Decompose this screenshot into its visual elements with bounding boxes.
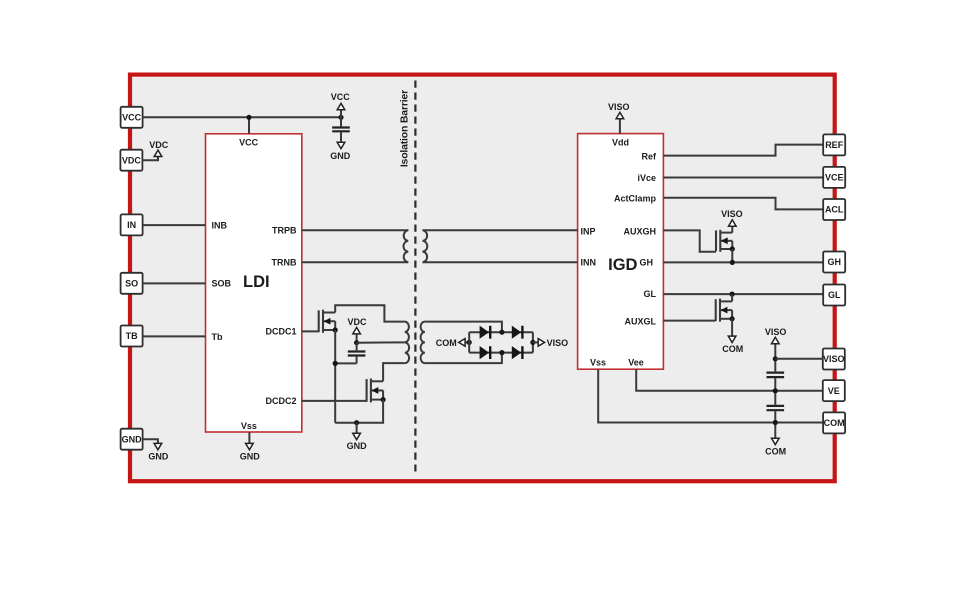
diode D1 [480,326,491,339]
diode D4 [512,346,523,359]
wire ground rail [335,400,383,423]
junction C2 bottom [333,361,338,366]
transistor Q4 AUXGL [716,299,732,322]
junction bridge top mid [499,330,504,335]
wire Q4 drain to GL [731,294,733,301]
svg-text:VISO: VISO [547,338,569,348]
wire bridge bottom [469,352,533,354]
ground flag at GND terminal [143,439,169,461]
svg-text:ActClamp: ActClamp [614,194,657,204]
svg-text:Vdd: Vdd [612,138,629,148]
svg-text:IGD: IGD [608,256,637,274]
wire VISO box [775,358,822,360]
terminal SO [121,273,143,294]
wire DCDC2 gate [302,400,367,402]
power flag VDC [143,140,169,161]
junction bridge right [530,340,535,345]
board outline [130,75,835,482]
svg-text:TB: TB [126,331,138,341]
svg-text:GL: GL [644,289,657,299]
svg-text:DCDC2: DCDC2 [265,396,296,406]
svg-text:GND: GND [122,434,143,444]
svg-text:LDI: LDI [243,273,270,291]
junction Q3 source [730,246,735,251]
svg-text:ACL: ACL [825,205,844,215]
junction VCC-LDI [246,115,251,120]
svg-text:VCC: VCC [122,113,142,123]
junction Q2 source [381,397,386,402]
svg-text:GH: GH [827,257,841,267]
wire bridge top [469,331,533,333]
power flag VDC at converter [347,317,367,343]
ground GND under C1 [330,142,351,161]
wire ActClamp [663,198,823,210]
svg-text:TRPB: TRPB [272,226,297,236]
terminal IN [121,214,143,235]
wire VDC center-tap [357,341,405,343]
svg-text:VDC: VDC [347,317,367,327]
svg-text:Vss: Vss [241,421,257,431]
ground flag LDI Vss [240,432,261,461]
wire T2 secondary bottom feed [425,353,502,364]
terminal VCE [823,167,845,188]
wire iVce [663,177,823,179]
op-block IGD [578,134,664,370]
svg-text:COM: COM [436,338,457,348]
junction bridge bottom mid [499,350,504,355]
svg-text:INB: INB [212,221,228,231]
wire SO-SOB [143,282,206,284]
wire TRNB [302,261,409,263]
wire AUXGH gate [663,230,716,251]
ground flag COM bottom [765,438,786,456]
svg-text:COM: COM [765,446,786,456]
terminal GL [823,285,845,306]
terminal VCC [121,107,143,128]
svg-text:REF: REF [825,140,844,150]
svg-text:GND: GND [330,151,351,161]
capacitor C1 [332,117,350,142]
power flag VCC [331,92,351,118]
svg-text:iVce: iVce [637,173,656,183]
junction COM tap [773,420,778,425]
wire Q3 source to GH [731,249,733,262]
transistor Q3 AUXGH [716,230,732,252]
wire INN [423,261,578,263]
isolation barrier [398,81,415,472]
svg-text:GH: GH [640,258,654,268]
svg-text:TRNB: TRNB [272,258,297,268]
svg-text:VISO: VISO [765,327,787,337]
svg-text:VCC: VCC [239,138,259,148]
capacitor C4 [767,406,785,439]
diode D2 [512,326,523,339]
svg-text:Ref: Ref [641,151,657,161]
svg-text:GND: GND [240,451,261,461]
svg-text:VDC: VDC [122,155,142,165]
svg-text:IN: IN [127,220,136,230]
svg-text:DCDC1: DCDC1 [265,327,296,337]
junction Q4 source [730,316,735,321]
wire Vee to VE rail [636,369,823,391]
diode D3 [480,346,491,359]
wire bridge left rail [468,332,470,352]
svg-text:COM: COM [824,418,845,428]
transistor Q1 [319,310,336,333]
svg-text:GND: GND [148,451,169,461]
junction GH [730,260,735,265]
wire GL [663,293,823,295]
svg-text:SO: SO [125,279,138,289]
svg-text:GND: GND [347,441,368,451]
svg-text:VISO: VISO [721,209,743,219]
terminal ACL [823,199,845,220]
wire C2 bottom tie [335,362,356,364]
wire T2 secondary top feed [425,322,502,333]
terminal GND [121,429,143,450]
svg-text:GL: GL [828,290,841,300]
wire TRPB [302,229,409,231]
net flag COM at bridge [436,338,469,348]
junction Q1 source [333,327,338,332]
svg-text:VISO: VISO [608,102,630,112]
svg-text:AUXGL: AUXGL [625,317,657,327]
terminal VE [823,380,845,401]
wire Vss to COM rail [598,369,823,422]
terminal VISO [823,349,845,370]
wire Q1 drain rail [335,305,405,321]
svg-text:COM: COM [722,344,743,354]
terminal VDC [120,150,142,171]
svg-text:Tb: Tb [212,332,223,342]
junction VISO box tap [773,356,778,361]
svg-text:Vee: Vee [628,357,644,367]
svg-text:VCC: VCC [331,92,351,102]
wire GH [663,261,823,263]
svg-text:VCE: VCE [825,173,844,183]
transformer T1 [404,230,428,262]
svg-text:AUXGH: AUXGH [623,226,656,236]
op-block LDI [206,134,302,432]
wire AUXGL gate [663,320,715,322]
ground flag converter [347,423,368,451]
junction VCC-C1 [338,115,343,120]
junction ground tap [354,420,359,425]
svg-text:INP: INP [581,226,596,236]
wire IN-INB [143,224,206,226]
capacitor C2 [348,343,366,364]
junction VE tap [773,388,778,393]
svg-text:Isolation Barrier: Isolation Barrier [398,90,410,167]
svg-text:SOB: SOB [212,279,232,289]
wire Q2 drain rail [383,363,405,381]
capacitor C3 [767,373,785,405]
power flag VISO above IGD [608,102,630,134]
junction bridge left [467,340,472,345]
terminal COM [823,412,845,433]
svg-text:VISO: VISO [823,354,845,364]
power flag VISO right column [765,327,787,371]
terminal GH [823,252,845,273]
wire INP [423,229,578,231]
svg-text:VDC: VDC [149,140,169,150]
transformer T2 [405,322,425,364]
wire TB-Tb [143,335,206,337]
svg-text:INN: INN [581,258,597,268]
svg-text:VE: VE [828,386,840,396]
wire Q1 source down [334,330,336,423]
wire VCC to LDI [248,117,250,134]
wire bridge right rail [532,332,534,352]
wire VCC bus [143,116,341,118]
junction VDC tap [354,340,359,345]
terminal TB [121,326,143,347]
ground flag COM at Q4 [722,319,743,354]
terminal REF [823,134,845,155]
svg-text:Vss: Vss [590,357,606,367]
junction GL [730,292,735,297]
transistor Q2 [367,379,384,403]
net flag VISO at bridge [533,338,568,348]
wire Ref [663,145,823,156]
power flag VISO at Q3 [721,209,743,232]
wire DCDC1 gate [302,330,319,332]
